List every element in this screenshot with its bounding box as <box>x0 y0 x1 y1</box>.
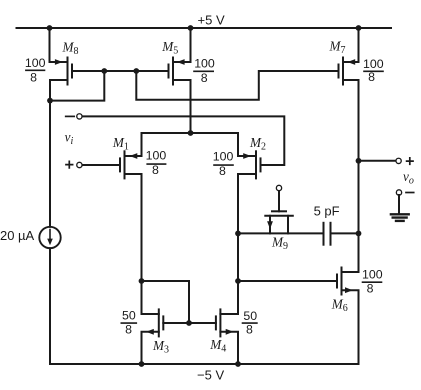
fraction bar M6 100/8 <box>363 281 382 283</box>
transistor M6 channel bar <box>341 268 343 295</box>
transistor M1 gate bar <box>119 158 121 171</box>
wire output - terminal to ground <box>398 195 400 214</box>
node dot M1/M3 drain to mirror loop <box>139 278 145 284</box>
fraction bar M5 100/8 <box>194 70 213 72</box>
svg-text:M3: M3 <box>152 338 169 356</box>
svg-text:100: 100 <box>194 56 215 70</box>
transistor M9 gate bar (horizontal) <box>272 210 286 212</box>
svg-text:8: 8 <box>246 322 253 336</box>
transistor M5 PMOS: source arrowhead <box>177 59 185 65</box>
svg-text:M8: M8 <box>62 39 79 57</box>
terminal - input circle <box>77 114 82 119</box>
node dot M7 source on +5V rail <box>356 25 362 31</box>
svg-text:8: 8 <box>30 70 37 84</box>
node dot M5 source on +5V rail <box>188 25 194 31</box>
wire compensation branch left segment <box>238 232 324 234</box>
label - output polarity sign <box>406 192 414 194</box>
svg-text:20 µA: 20 µA <box>0 228 35 243</box>
wire M8 source lead from +5V rail <box>50 28 68 62</box>
node dot M8 gate-drain loop tap <box>101 68 107 74</box>
ground symbol bar 3 <box>396 220 404 222</box>
svg-text:8: 8 <box>367 281 374 295</box>
svg-text:−5 V: −5 V <box>197 367 224 382</box>
svg-text:M2: M2 <box>249 135 266 153</box>
wire M2 gate detour to - input <box>82 116 284 165</box>
transistor M1 PMOS: source arrowhead <box>130 153 138 159</box>
svg-text:100: 100 <box>362 268 383 282</box>
wire gate bus M3-M4 <box>163 322 216 324</box>
ground symbol bar 1 <box>391 213 409 215</box>
node dot M4 source on -5V rail <box>235 361 241 367</box>
wire M8 drain lead down to bias node <box>50 80 68 227</box>
svg-text:8: 8 <box>152 163 159 177</box>
wire M1 gate lead from + input <box>82 164 120 166</box>
transistor M2 PMOS: source arrowhead <box>243 153 251 159</box>
terminal + input circle <box>77 162 82 167</box>
wire M5 drain down to diff-pair tail node <box>173 80 191 133</box>
svg-text:vo: vo <box>403 169 414 187</box>
terminal M9 gate bias circle <box>276 185 281 190</box>
wire M3 source lead to -5V rail <box>142 332 159 364</box>
wire M9 left (source) lead <box>269 216 271 234</box>
transistor M5 gate bar <box>168 65 170 78</box>
transistor M9 NMOS: source arrowhead down <box>267 221 273 229</box>
svg-text:100: 100 <box>213 149 234 163</box>
svg-text:vi: vi <box>65 130 74 148</box>
capacitor C 5pF left plate <box>323 223 325 245</box>
svg-text:50: 50 <box>243 309 257 323</box>
wire M1 source jog <box>125 133 142 156</box>
current source arrow shaft <box>49 230 51 241</box>
wire M5 source lead from +5V rail <box>173 28 191 62</box>
transistor M6 gate bar <box>336 275 338 288</box>
transistor M8 PMOS: source arrowhead <box>55 59 63 65</box>
transistor M6 NMOS: source arrowhead <box>345 287 353 293</box>
wire M4 drain lead <box>220 313 238 315</box>
svg-text:M5: M5 <box>161 39 178 57</box>
wire M4 source lead to -5V rail <box>220 332 238 364</box>
transistor M4 NMOS: source arrowhead <box>226 329 234 335</box>
ground symbol bar 2 <box>393 216 407 218</box>
transistor M3 NMOS: source arrowhead <box>146 329 154 335</box>
wire M6 source lead down to -5V rail <box>342 290 359 364</box>
transistor M7 gate bar <box>338 65 340 78</box>
transistor M1 channel bar <box>124 151 126 178</box>
label + input polarity sign <box>66 161 73 168</box>
wire M8 gate-drain diode loop <box>50 71 104 101</box>
capacitor C 5pF right plate <box>330 223 332 245</box>
fraction bar M2 100/8 <box>214 164 233 166</box>
transistor M2 channel bar <box>255 151 257 178</box>
wire output tap to + terminal <box>359 160 397 162</box>
transistor M4 channel bar <box>219 309 221 336</box>
fraction bar M3 50/8 <box>121 322 136 324</box>
transistor M2 gate bar <box>260 158 262 171</box>
node dot output tap <box>356 158 362 164</box>
svg-text:8: 8 <box>368 70 375 84</box>
transistor M8 gate bar <box>71 65 73 78</box>
svg-text:100: 100 <box>363 57 384 71</box>
wire M1 drain column to M3 <box>125 174 142 314</box>
wire M6 drain lead to output column <box>342 271 359 273</box>
transistor M4 gate bar <box>215 316 217 329</box>
transistor M8 channel bar <box>67 58 69 85</box>
terminal output - circle <box>396 190 401 195</box>
svg-text:M9: M9 <box>271 234 288 252</box>
transistor M7 channel bar <box>342 58 344 85</box>
wire diff-pair source bus <box>142 132 239 134</box>
node dot M8 source on +5V rail <box>47 25 53 31</box>
svg-text:50: 50 <box>122 309 136 323</box>
wire gate bus M8-M5 <box>72 70 169 72</box>
svg-text:M4: M4 <box>209 337 226 355</box>
wire M7 drain / output column <box>343 80 359 272</box>
transistor M3 gate bar <box>162 316 164 329</box>
node dot diff-pair tail <box>188 130 194 136</box>
current source I 20uA circle <box>39 227 60 248</box>
wire compensation branch right segment <box>331 232 359 234</box>
fraction bar M4 50/8 <box>243 322 257 324</box>
label + output polarity sign <box>407 158 413 164</box>
node dot compensation tap on output column <box>356 231 362 237</box>
wire current source to -5V rail <box>49 248 51 364</box>
terminal output + circle <box>396 158 401 163</box>
wire M3 drain lead <box>142 313 159 315</box>
wire M2 drain column to M4 <box>238 174 256 314</box>
wire +5V top rail <box>17 27 392 29</box>
transistor M5 channel bar <box>172 58 174 85</box>
svg-text:100: 100 <box>146 148 167 162</box>
svg-text:5 pF: 5 pF <box>314 203 340 218</box>
node dot M3 source on -5V rail <box>139 361 145 367</box>
wire gate bias detour to M7 gate <box>136 71 338 100</box>
node dot M6 gate tap <box>235 278 241 284</box>
transistor M7 PMOS: source arrowhead <box>347 59 355 65</box>
fraction bar M7 100/8 <box>364 70 383 72</box>
wire M3 diode loop drain-to-gate <box>142 281 190 323</box>
svg-text:100: 100 <box>25 56 46 70</box>
wire -5V bottom rail <box>50 363 359 365</box>
node dot M8 drain/gate junction <box>47 98 53 104</box>
svg-text:M1: M1 <box>112 135 129 153</box>
wire M9 right (drain) lead <box>287 216 289 234</box>
transistor M3 channel bar <box>158 309 160 336</box>
svg-text:8: 8 <box>125 322 132 336</box>
transistor M9 channel bar (horizontal) <box>265 215 293 217</box>
label - input polarity sign <box>66 115 75 117</box>
node dot compensation branch tap <box>235 231 241 237</box>
svg-text:M7: M7 <box>329 38 346 56</box>
svg-text:+5 V: +5 V <box>198 12 225 27</box>
current source arrowhead <box>47 239 53 246</box>
fraction bar M8 100/8 <box>26 69 45 71</box>
svg-text:M6: M6 <box>331 296 348 314</box>
fraction bar M1 100/8 <box>147 163 165 165</box>
wire M7 source lead from +5V rail <box>343 28 359 62</box>
wire M6 gate lead from first-stage output <box>238 280 337 282</box>
wire M9 gate lead up to bias terminal <box>278 190 280 211</box>
svg-text:8: 8 <box>201 71 208 85</box>
node dot M3/M4 gate bus junction <box>186 320 192 326</box>
node dot mirror bus tap to M7 <box>133 68 139 74</box>
svg-text:8: 8 <box>219 164 226 178</box>
wire M2 source jog <box>238 133 256 156</box>
